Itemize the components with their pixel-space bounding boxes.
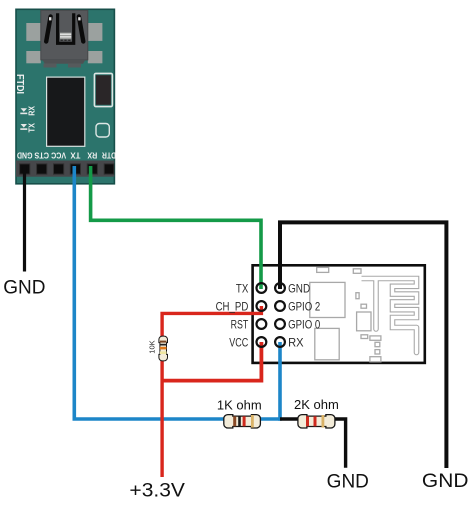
pin VCC circle: [257, 337, 267, 347]
board PCB: [16, 9, 114, 184]
wire W10 red vertical to +3.3V: [160, 358, 163, 477]
chip U5 FT232: [47, 77, 85, 146]
part c9: [370, 357, 381, 362]
pin RX circle: [275, 337, 285, 347]
svg-text:GND: GND: [288, 281, 310, 295]
part c4 crystal: [357, 312, 371, 331]
pin P5 RX: [87, 164, 97, 174]
svg-text:FTDI: FTDI: [14, 74, 25, 94]
wire W6 black ESP GND up over to right and down: [280, 222, 446, 468]
usb shell prong right: [79, 17, 83, 42]
wire W3 blue 1K right lead to RX junction: [258, 417, 280, 421]
svg-text:RX: RX: [288, 335, 304, 349]
svg-text:VCC: VCC: [229, 335, 248, 349]
svg-text:VCC: VCC: [51, 150, 66, 160]
svg-text:1K ohm: 1K ohm: [217, 398, 262, 413]
chip U4 lower: [315, 328, 339, 359]
header strip: [16, 161, 114, 177]
chip U3 big: [310, 282, 345, 317]
svg-text:+3.3V: +3.3V: [129, 481, 185, 502]
svg-text:GPIO 0: GPIO 0: [288, 317, 320, 331]
wire W1 black FTDI GND down: [23, 166, 26, 272]
part c2: [356, 293, 359, 299]
pin P1 GND: [20, 164, 30, 174]
prong highlight left: [49, 17, 51, 20]
svg-text:RST: RST: [231, 317, 249, 331]
module U2 ESP8266 ESP-01 board outline: [253, 265, 425, 363]
part c7: [375, 342, 380, 346]
svg-text:GND: GND: [17, 150, 33, 160]
antenna PCB trace: [362, 279, 417, 353]
pin CH_PD circle: [257, 301, 267, 311]
pad right lower: [88, 51, 103, 63]
prong highlight right: [78, 17, 80, 20]
pin TX circle: [257, 283, 267, 293]
svg-text:CTS: CTS: [34, 150, 49, 160]
wire W4 blue ESP RX down to junction: [278, 342, 282, 421]
svg-text:CH_PD: CH_PD: [216, 299, 249, 313]
resistor R2 1K ohm: [217, 398, 262, 429]
svg-text:TX: TX: [70, 150, 80, 160]
pin P4 TX: [70, 164, 80, 174]
pin P6 DTR: [104, 164, 114, 174]
svg-text:RX: RX: [27, 106, 37, 116]
pin RST circle: [257, 319, 267, 329]
part rounded pad: [96, 124, 109, 138]
usb center U shape: [58, 13, 74, 43]
led RX arrow: [21, 108, 27, 112]
svg-text:TX: TX: [236, 281, 248, 295]
svg-text:TX: TX: [27, 123, 37, 133]
svg-text:GPIO 2: GPIO 2: [288, 299, 320, 313]
resistor R3 2K ohm: [294, 397, 339, 428]
svg-text:2K ohm: 2K ohm: [294, 397, 339, 412]
part c6: [370, 336, 381, 340]
pin P3 VCC: [54, 164, 64, 174]
wire W7 black junction to 2K resistor and GND: [280, 419, 346, 468]
svg-text:GND: GND: [327, 472, 369, 493]
part right black component: [94, 73, 112, 106]
pad right upper: [88, 23, 103, 41]
svg-text:10K: 10K: [148, 340, 157, 353]
led TX arrow: [21, 124, 27, 128]
module U1 FTDI board: [14, 9, 116, 184]
resistor R1 10K vertical: [148, 336, 168, 361]
part c8: [375, 350, 380, 354]
pin GPIO0 circle: [275, 319, 285, 329]
svg-text:DTR: DTR: [102, 150, 116, 160]
wire W9 red VCC down and left: [162, 342, 261, 381]
pin GND circle: [275, 283, 285, 293]
wire W5 green FTDI RX to ESP TX: [91, 166, 261, 289]
usb shell prong left: [46, 17, 50, 42]
part top notch: [317, 267, 329, 272]
svg-text:GND: GND: [3, 278, 45, 299]
pad left upper: [26, 23, 41, 41]
svg-text:GND: GND: [422, 471, 469, 492]
part c3: [361, 304, 367, 308]
wire W2 blue FTDI TX to 1K resistor: [74, 166, 226, 419]
connector J1 USB mini body: [41, 10, 88, 60]
usb contact stripes box: [60, 33, 71, 40]
part c5: [361, 335, 368, 339]
wire W8 red CH_PD to 10K resistor: [162, 306, 261, 340]
svg-text:RX: RX: [87, 150, 97, 160]
pin GPIO2 circle: [275, 301, 285, 311]
connector foot right: [68, 64, 81, 68]
pin P2 CTS: [37, 164, 47, 174]
connector foot left: [44, 64, 57, 68]
part c1: [353, 269, 361, 274]
pad left lower: [26, 51, 41, 63]
